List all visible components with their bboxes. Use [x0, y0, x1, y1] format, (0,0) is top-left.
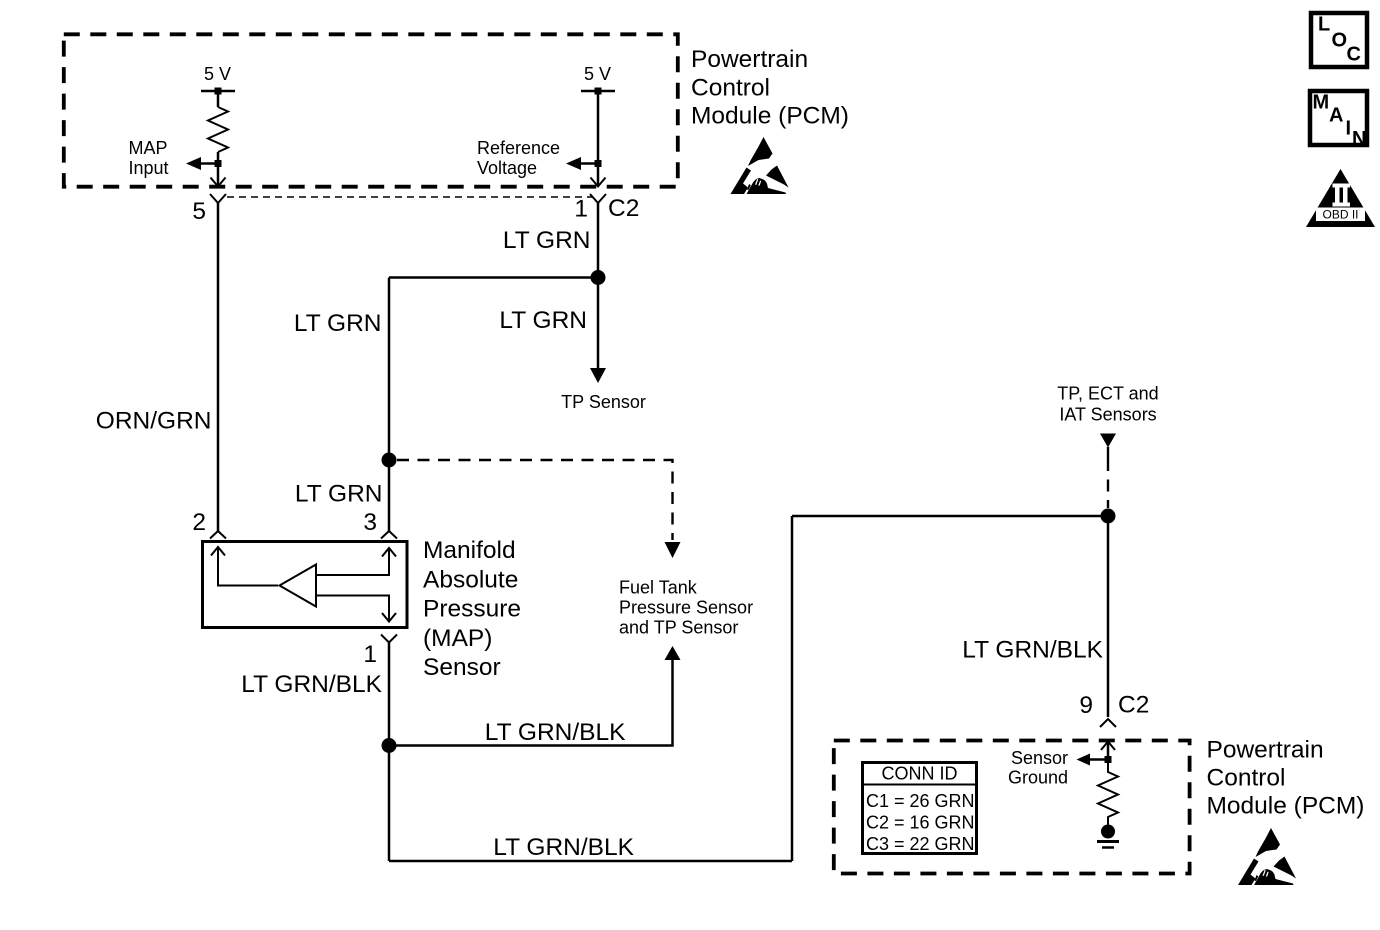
- connector pin 2 chevron: [210, 531, 226, 539]
- junction node bottom splice: [382, 738, 397, 753]
- svg-text:MAP: MAP: [129, 138, 168, 158]
- svg-text:TP, ECT and: TP, ECT and: [1057, 384, 1158, 404]
- svg-text:LT GRN/BLK: LT GRN/BLK: [962, 637, 1103, 664]
- svg-text:5 V: 5 V: [204, 64, 231, 84]
- svg-text:Sensor: Sensor: [423, 654, 501, 681]
- wire ORN/GRN pin5 to MAP pin2: [217, 203, 220, 531]
- svg-text:Powertrain: Powertrain: [691, 46, 808, 73]
- ESD symbol U2 (bottom PCM): [1238, 828, 1296, 885]
- wire branch horizontal: [389, 276, 598, 279]
- svg-text:Fuel Tank: Fuel Tank: [619, 578, 698, 598]
- wire node to pin 1 with down arrow: [597, 167, 600, 186]
- svg-text:C: C: [1347, 44, 1361, 66]
- svg-text:Sensor: Sensor: [1011, 748, 1068, 768]
- connector pin 1 C2: [590, 194, 606, 203]
- svg-text:Manifold: Manifold: [423, 537, 516, 564]
- connector pin 9 C2: [1100, 719, 1116, 727]
- ground dot: [1101, 825, 1115, 839]
- ground symbol: [1097, 840, 1119, 843]
- svg-text:C3 = 22 GRN: C3 = 22 GRN: [866, 834, 975, 854]
- svg-text:Module (PCM): Module (PCM): [1207, 793, 1365, 820]
- wire 5V to resistor: [217, 91, 220, 107]
- svg-text:1: 1: [363, 641, 377, 668]
- junction node to fuel tank branch: [382, 453, 397, 468]
- node square Reference Voltage: [595, 160, 602, 167]
- svg-text:C1 = 26 GRN: C1 = 26 GRN: [866, 791, 975, 811]
- wire 5V down to node: [597, 91, 600, 161]
- svg-text:LT GRN/BLK: LT GRN/BLK: [241, 671, 382, 698]
- MAP Input arrow: [199, 162, 216, 165]
- svg-text:A: A: [1329, 105, 1343, 127]
- connector pin 1 (MAP bottom): [381, 635, 397, 643]
- MAP internal amplifier triangle: [280, 565, 317, 607]
- junction node sensors splice: [1101, 509, 1116, 524]
- ESD symbol U1 (top PCM): [731, 137, 789, 194]
- Sensor Ground arrow: [1089, 758, 1106, 761]
- svg-text:Input: Input: [129, 158, 169, 178]
- 5V supply bar (right): [581, 90, 615, 93]
- MAIN symbol box: [1310, 91, 1367, 145]
- svg-text:LT GRN: LT GRN: [294, 310, 382, 337]
- svg-text:Powertrain: Powertrain: [1207, 736, 1324, 763]
- junction node splice: [591, 270, 606, 285]
- MAP internal left wire with up arrow: [211, 547, 225, 556]
- connector pin 3 chevron: [381, 531, 397, 539]
- svg-text:LT GRN: LT GRN: [295, 481, 383, 508]
- svg-text:9: 9: [1079, 692, 1093, 719]
- wire branch vertical to MAP pin3: [388, 278, 391, 532]
- dashed wire to fuel tank pressure sensor: [397, 460, 673, 540]
- svg-text:3: 3: [363, 509, 377, 536]
- svg-text:Control: Control: [691, 74, 770, 101]
- 5V supply tap square (left): [215, 88, 222, 95]
- 5V supply bar (left): [201, 90, 235, 93]
- svg-text:N: N: [1352, 128, 1366, 150]
- svg-text:CONN ID: CONN ID: [882, 764, 958, 784]
- up arrow into PCM: [1101, 742, 1115, 751]
- wire fuel tank branch down and left: [389, 659, 673, 746]
- svg-text:and TP Sensor: and TP Sensor: [619, 618, 738, 638]
- svg-text:Ground: Ground: [1008, 768, 1068, 788]
- connector C2 dashed boundary line: [227, 196, 592, 198]
- svg-text:C2: C2: [1118, 692, 1149, 719]
- svg-text:1: 1: [574, 196, 588, 223]
- svg-text:TP Sensor: TP Sensor: [561, 392, 646, 412]
- svg-text:Module (PCM): Module (PCM): [691, 103, 849, 130]
- svg-text:Reference: Reference: [477, 138, 560, 158]
- svg-text:O: O: [1332, 30, 1348, 52]
- 5V supply tap square (right): [595, 88, 602, 95]
- MAP internal bottom output wire with down arrow: [316, 596, 389, 621]
- up arrow from fuel tank label: [665, 646, 681, 660]
- svg-text:I: I: [1346, 118, 1352, 140]
- wire LT GRN/BLK from MAP pin1 down: [388, 643, 391, 862]
- svg-text:C2: C2: [608, 195, 639, 222]
- svg-text:Voltage: Voltage: [477, 158, 537, 178]
- wire node to pin 5 with down arrow: [217, 167, 220, 186]
- svg-text:Absolute: Absolute: [423, 566, 518, 593]
- svg-text:ORN/GRN: ORN/GRN: [96, 408, 212, 435]
- resistor R2 (sensor ground): [1098, 763, 1118, 825]
- svg-text:2: 2: [192, 509, 206, 536]
- svg-text:Pressure Sensor: Pressure Sensor: [619, 598, 753, 618]
- wire resistor to node: [217, 152, 220, 161]
- svg-text:Pressure: Pressure: [423, 596, 521, 623]
- PCM bottom dashed box: [834, 741, 1190, 874]
- node square MAP input: [215, 160, 222, 167]
- PCM top dashed box: [64, 34, 678, 186]
- svg-text:LT GRN: LT GRN: [503, 227, 591, 254]
- dashed wire from sensors: [1107, 459, 1109, 508]
- Reference Voltage arrow: [579, 162, 596, 165]
- wire bottom horizontal: [389, 860, 792, 863]
- svg-text:5: 5: [192, 198, 206, 225]
- resistor R1 (PCM pull-up): [208, 107, 228, 152]
- node square sensor ground: [1105, 756, 1112, 763]
- svg-text:L: L: [1318, 14, 1330, 36]
- svg-text:5 V: 5 V: [584, 64, 611, 84]
- svg-text:LT GRN: LT GRN: [499, 307, 587, 334]
- svg-text:C2 = 16 GRN: C2 = 16 GRN: [866, 813, 975, 833]
- wire to sensors junction: [792, 515, 1108, 518]
- arrow from TP ECT IAT sensors: [1100, 434, 1116, 448]
- svg-text:OBD II: OBD II: [1322, 208, 1358, 222]
- CONN ID table: [863, 763, 977, 854]
- svg-text:Control: Control: [1207, 764, 1286, 791]
- wire LT GRN pin1 down: [597, 203, 600, 368]
- svg-text:LT GRN/BLK: LT GRN/BLK: [485, 719, 626, 746]
- MAP internal top output wire with up arrow: [316, 549, 389, 575]
- MAP sensor box: [203, 542, 408, 628]
- svg-text:IAT Sensors: IAT Sensors: [1059, 405, 1156, 425]
- connector pin 5: [210, 194, 226, 203]
- svg-text:M: M: [1313, 92, 1330, 114]
- LOC symbol box: [1311, 13, 1367, 67]
- TP Sensor arrow: [590, 368, 606, 383]
- svg-text:(MAP): (MAP): [423, 625, 492, 652]
- svg-text:LT GRN/BLK: LT GRN/BLK: [493, 834, 634, 861]
- wire right riser: [791, 516, 794, 861]
- OBD II symbol triangle: [1306, 169, 1375, 227]
- wire LT GRN/BLK down to pin 9: [1107, 516, 1110, 717]
